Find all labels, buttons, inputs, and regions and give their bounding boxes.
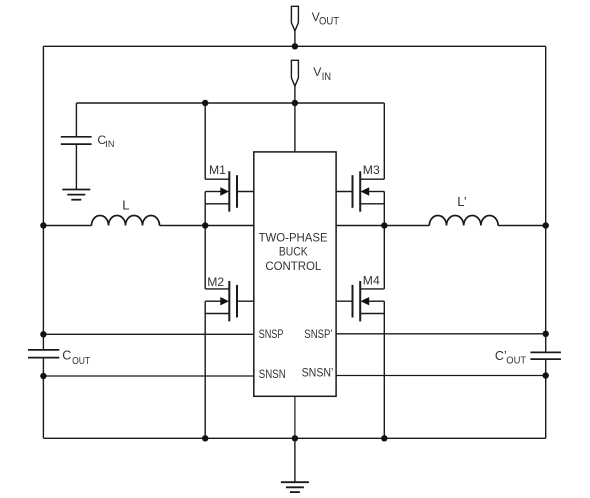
junction: SW rail on left VOUT rail <box>40 222 46 228</box>
wire: SNSP sense line <box>43 333 253 335</box>
capacitor COUT <box>28 350 59 358</box>
svg-text:SNSP’: SNSP’ <box>304 327 332 341</box>
junction: VIN terminal / control box tap <box>292 100 298 106</box>
svg-text:M4: M4 <box>363 273 380 287</box>
svg-text:OUT: OUT <box>319 16 340 28</box>
svg-text:L: L <box>122 198 129 213</box>
svg-text:TWO-PHASE: TWO-PHASE <box>259 231 328 245</box>
svg-text:C: C <box>62 348 71 362</box>
wire: SNSN sense line <box>43 375 253 377</box>
op-amp U1: two-phase buck control box <box>254 152 336 396</box>
inductor L' <box>429 216 498 226</box>
svg-text:OUT: OUT <box>506 355 526 366</box>
transistor M3 <box>336 171 384 211</box>
transistor M1 <box>205 171 254 211</box>
terminal VOUT pin <box>291 6 298 46</box>
wire: ground bottom rail <box>43 437 545 439</box>
wire: M3 source down to SW' rail and M4 drain <box>383 192 385 289</box>
wire: SW rail left (VOUT rail to inductor L) <box>43 225 91 227</box>
wire: VIN tap into control box top <box>294 103 296 152</box>
svg-text:L’: L’ <box>457 194 467 209</box>
junction: SW node at M1/M2 <box>202 222 208 228</box>
svg-text:SNSN: SNSN <box>259 367 286 381</box>
terminal VIN pin <box>291 60 298 103</box>
wire: VIN rail to M1 drain <box>204 103 206 179</box>
capacitor C'OUT <box>530 352 561 359</box>
junction: M1 drain on VIN rail <box>202 100 208 106</box>
svg-text:IN: IN <box>322 71 331 83</box>
wire: VIN rail <box>76 102 384 104</box>
wire: SW rail (inductor to control box) <box>160 225 254 227</box>
svg-text:CONTROL: CONTROL <box>265 259 321 273</box>
inductor L <box>92 216 160 226</box>
svg-text:M1: M1 <box>209 163 226 177</box>
ground (CIN) <box>62 190 90 200</box>
wire: CIN to ground <box>75 145 77 189</box>
junction: M4 source on ground rail <box>381 435 387 441</box>
junction: SW' rail on right VOUT rail <box>543 222 549 228</box>
wire: stub to ground symbol <box>294 438 296 481</box>
junction: ground tap on bottom rail <box>292 435 298 441</box>
junction: SW' node at M3/M4 <box>381 222 387 228</box>
wire: VOUT top rail <box>43 45 545 47</box>
junction: M2 source on ground rail <box>202 435 208 441</box>
svg-text:SNSP: SNSP <box>259 327 284 341</box>
svg-text:OUT: OUT <box>72 356 90 367</box>
junction: SNSN' tap on right rail <box>543 372 549 378</box>
wire: left rail lower segment (COUT to ground rail) <box>42 358 44 438</box>
wire: right rail lower segment (C'OUT to ground rail) <box>545 360 547 439</box>
svg-text:M3: M3 <box>363 163 380 177</box>
wire: left VOUT rail (upper segment to COUT) <box>42 46 44 349</box>
wire: M1 source down to SW rail and M2 drain <box>204 192 206 289</box>
wire: VIN rail drop to CIN <box>75 103 77 136</box>
junction: VOUT terminal on top rail <box>292 43 298 49</box>
junction: SNSP tap on left rail <box>40 331 46 337</box>
wire: SW' rail right (inductor to right VOUT rail) <box>498 225 546 227</box>
transistor M2 <box>205 281 254 321</box>
wire: control box bottom to ground rail <box>294 396 296 438</box>
wire: VIN rail right corner down to M3 drain <box>383 103 385 179</box>
svg-text:C’: C’ <box>495 349 507 363</box>
label: control box title <box>259 231 328 274</box>
wire: SNSP' sense line <box>336 333 546 335</box>
junction: SNSN tap on left rail <box>40 373 46 379</box>
svg-text:SNSN’: SNSN’ <box>302 366 334 380</box>
wire: M2 source down to ground rail <box>204 301 206 438</box>
wire: right VOUT rail (upper segment to C'OUT) <box>545 46 547 351</box>
svg-text:BUCK: BUCK <box>279 244 308 258</box>
transistor M4 <box>336 281 384 321</box>
wire: SNSN' sense line <box>336 375 546 377</box>
ground (main) <box>281 482 309 492</box>
junction: SNSP' tap on right rail <box>543 331 549 337</box>
svg-text:M2: M2 <box>207 275 224 289</box>
wire: SW' rail (control box to inductor L') <box>336 225 429 227</box>
wire: M4 source down to ground rail <box>383 301 385 438</box>
capacitor CIN <box>61 137 92 144</box>
svg-text:IN: IN <box>105 138 114 149</box>
